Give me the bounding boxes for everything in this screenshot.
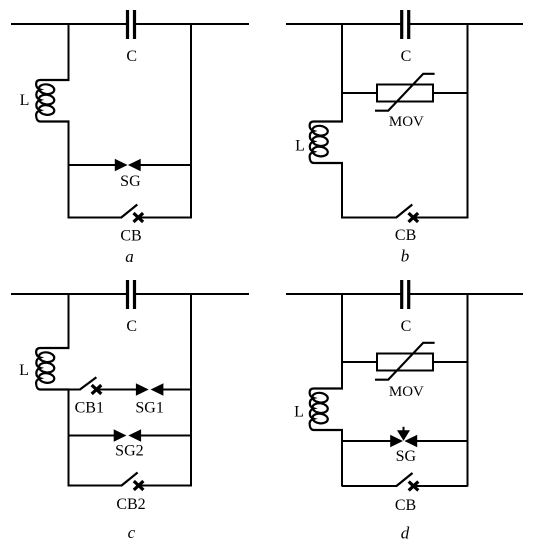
- svg-text:CB: CB: [395, 227, 416, 244]
- wire CB branch (b) right shaft: [413, 217, 467, 219]
- spark gap SG2 left electrode arrow: [115, 431, 125, 440]
- svg-text:L: L: [295, 138, 305, 155]
- wire left lower (b): [341, 163, 343, 219]
- wire CB branch (d) left shaft: [342, 485, 397, 487]
- inductor L (d): [310, 389, 343, 431]
- svg-text:CB: CB: [395, 497, 416, 514]
- wire top bus right (a): [135, 23, 249, 25]
- svg-text:MOV: MOV: [389, 114, 424, 130]
- wire CB branch (a) right shaft: [138, 217, 191, 219]
- svg-text:a: a: [125, 247, 134, 266]
- wire SG1 right shaft (c): [160, 389, 191, 391]
- wire left drop (b): [341, 23, 343, 123]
- wire CB branch (a) left shaft: [69, 217, 122, 219]
- wire MOV left lead (b): [342, 92, 377, 94]
- breaker CB contact cross: [409, 482, 419, 491]
- varistor MOV body (d): [377, 354, 433, 371]
- wire right drop (b): [467, 23, 469, 219]
- svg-text:C: C: [401, 48, 412, 65]
- wire top bus right (d): [409, 293, 523, 295]
- svg-text:L: L: [20, 92, 30, 109]
- svg-text:SG1: SG1: [135, 399, 163, 416]
- wire right drop (c): [190, 293, 192, 487]
- svg-text:C: C: [126, 318, 137, 335]
- breaker CB blade: [121, 205, 138, 218]
- breaker CB2 contact cross: [134, 481, 144, 490]
- capacitor C plates (c): [126, 280, 129, 309]
- varistor MOV body (b): [377, 85, 433, 102]
- capacitor C plates (b): [400, 10, 403, 39]
- breaker CB1 blade: [79, 377, 96, 390]
- wire right drop (a): [190, 23, 192, 219]
- svg-text:SG: SG: [396, 448, 417, 465]
- inductor L (a): [36, 80, 69, 122]
- svg-text:CB1: CB1: [75, 399, 104, 416]
- wire MOV left lead (d): [342, 361, 377, 363]
- spark gap SG left electrode arrow: [116, 160, 126, 169]
- varistor MOV diagonal (d): [375, 343, 435, 380]
- wire SG branch (a) right shaft: [137, 164, 191, 166]
- svg-text:SG2: SG2: [115, 442, 143, 459]
- wire CB1-SG1 middle shaft (c): [97, 389, 141, 391]
- inductor L (c): [36, 348, 69, 390]
- wire top bus left (d): [286, 293, 401, 295]
- spark gap SG right electrode arrow: [130, 160, 140, 169]
- breaker CB blade: [396, 473, 413, 486]
- svg-text:MOV: MOV: [389, 384, 424, 400]
- wire CB branch (d) right shaft: [414, 485, 468, 487]
- breaker CB contact cross: [134, 213, 144, 222]
- wire SG right shaft (d): [414, 440, 468, 442]
- svg-text:CB2: CB2: [116, 496, 145, 513]
- wire left lower (c): [68, 389, 70, 487]
- svg-text:CB: CB: [120, 228, 141, 245]
- wire MOV right lead (d): [433, 361, 468, 363]
- wire CB branch (b) left shaft: [342, 217, 396, 219]
- breaker CB contact cross: [409, 213, 419, 222]
- svg-text:C: C: [401, 318, 412, 335]
- wire top bus right (b): [409, 23, 523, 25]
- wire left drop (a): [68, 23, 70, 81]
- svg-text:c: c: [128, 523, 136, 542]
- svg-text:C: C: [126, 48, 137, 65]
- svg-text:SG: SG: [120, 173, 141, 190]
- capacitor C plates (a): [126, 10, 129, 39]
- wire CB2 branch (c) right shaft: [139, 485, 191, 487]
- wire CB1 left stub (c): [69, 389, 80, 391]
- breaker CB1 contact cross: [92, 385, 102, 394]
- capacitor C plates (d): [400, 280, 403, 309]
- svg-text:d: d: [401, 524, 410, 543]
- wire MOV right lead (b): [433, 92, 468, 94]
- spark gap SG1 left electrode arrow: [137, 385, 147, 394]
- breaker CB2 blade: [121, 473, 138, 486]
- wire SG branch (a) left shaft: [69, 164, 119, 166]
- wire SG2 branch (c) left shaft: [69, 435, 118, 437]
- spark gap SG trigger electrode arrow (d): [399, 431, 408, 439]
- svg-text:L: L: [294, 404, 304, 421]
- wire left drop (d): [341, 293, 343, 390]
- wire left lower (a): [68, 121, 70, 219]
- svg-text:b: b: [401, 247, 410, 266]
- breaker CB blade: [396, 205, 413, 218]
- wire top bus right (c): [135, 293, 249, 295]
- varistor MOV diagonal (b): [375, 74, 435, 111]
- wire SG2 branch (c) right shaft: [138, 435, 191, 437]
- wire top bus left (a): [11, 23, 127, 25]
- spark gap SG right electrode arrow (d): [407, 436, 417, 445]
- wire CB2 branch (c) left shaft: [69, 485, 122, 487]
- wire top bus left (c): [11, 293, 127, 295]
- inductor L (b): [310, 122, 343, 164]
- wire top bus left (b): [286, 23, 401, 25]
- wire left lower (d): [341, 430, 343, 487]
- spark gap SG1 right electrode arrow: [153, 385, 163, 394]
- spark gap SG2 right electrode arrow: [131, 431, 141, 440]
- wire SG left shaft (d): [342, 440, 394, 442]
- spark gap SG left electrode arrow (d): [391, 436, 401, 445]
- wire left drop (c): [68, 293, 70, 349]
- wire right drop (d): [467, 293, 469, 487]
- svg-text:L: L: [19, 362, 29, 379]
- spark gap SG trigger electrode stem (d): [403, 427, 405, 433]
